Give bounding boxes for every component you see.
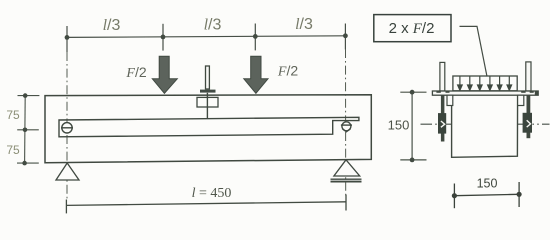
svg-text:l = 450: l = 450 bbox=[192, 186, 232, 201]
svg-text:150: 150 bbox=[388, 118, 410, 133]
svg-text:l/3: l/3 bbox=[295, 16, 313, 33]
right support triangle bbox=[334, 160, 360, 176]
left tie bolt upper shaft bbox=[440, 62, 445, 91]
cross-section square bbox=[452, 94, 518, 157]
slot (saw cut) outline bbox=[59, 117, 359, 137]
distributed load arrows bbox=[458, 77, 512, 91]
horizontal section centerline (phantom) bbox=[421, 123, 550, 125]
spreader plate bbox=[432, 91, 538, 95]
left height dimension line 75/75 bbox=[17, 96, 39, 164]
svg-text:150: 150 bbox=[477, 177, 498, 191]
right corner block under plate bbox=[518, 95, 524, 105]
top dimension line l/3 spans bbox=[67, 24, 345, 53]
right support ground lines bbox=[331, 178, 362, 180]
washer nubs on plate (left bolt) bbox=[436, 91, 440, 93]
leader line bbox=[460, 26, 488, 76]
force arrow F/2 left bbox=[152, 56, 177, 93]
svg-text:l/3: l/3 bbox=[103, 17, 121, 34]
mid-span center stem bbox=[206, 93, 208, 119]
left clamp white arrow bbox=[441, 121, 445, 127]
vertical 150 dimension bbox=[400, 92, 426, 160]
mid-span bracket bbox=[197, 97, 218, 107]
svg-text:F/2: F/2 bbox=[277, 63, 298, 80]
svg-text:l/3: l/3 bbox=[204, 17, 222, 34]
svg-text:75: 75 bbox=[6, 143, 20, 157]
right clamp block bbox=[523, 113, 532, 133]
bottom dimension line l=450 bbox=[66, 195, 346, 214]
left gauge (circle with horizontal line) bbox=[61, 123, 73, 133]
mid-span flange (dark) bbox=[200, 90, 216, 93]
distributed load box bbox=[453, 76, 517, 91]
force arrow F/2 right bbox=[244, 56, 268, 93]
right support centerline (dash-dot vertical at x=345.6) bbox=[345, 49, 347, 196]
right clamp white arrow bbox=[527, 120, 531, 127]
right bolt lower dark rod bbox=[527, 95, 531, 138]
washer nubs on plate (right bolt) bbox=[521, 91, 525, 93]
callout box 2 x F/2 bbox=[374, 15, 451, 42]
right gauge (dial with pointed tip) bbox=[341, 122, 352, 132]
mid-span rod bbox=[206, 66, 210, 89]
svg-text:2 x F/2: 2 x F/2 bbox=[389, 20, 435, 37]
plate dark right end bbox=[535, 91, 538, 95]
dots on 75/75 dimension bbox=[22, 93, 27, 165]
svg-text:F/2: F/2 bbox=[125, 64, 146, 81]
left support centerline (dash-dot vertical at x=67) bbox=[66, 52, 68, 199]
right tie bolt upper shaft bbox=[526, 62, 531, 91]
left bolt lower dark rod bbox=[441, 95, 445, 141]
tick dots on top dimension line bbox=[65, 33, 348, 39]
left clamp block bbox=[438, 113, 446, 134]
bottom 150 dimension bbox=[454, 182, 519, 208]
left corner block under plate bbox=[447, 95, 453, 105]
beam outline bbox=[45, 95, 371, 163]
svg-text:75: 75 bbox=[6, 108, 20, 122]
left support triangle bbox=[56, 163, 79, 180]
